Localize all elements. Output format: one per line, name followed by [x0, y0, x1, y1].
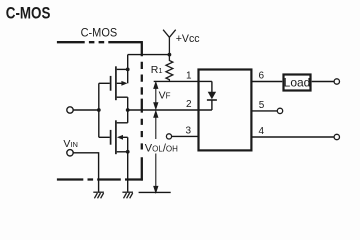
wire: Vcc rail	[128, 54, 170, 56]
resistor R1	[166, 55, 173, 82]
reference line for VOL/OH	[139, 191, 171, 193]
node: Q2 source junction	[126, 150, 130, 154]
LED D1	[211, 81, 213, 92]
terminal circle (pin 6 output)	[334, 79, 339, 84]
wire: output vertical (Q1 source to Q2 drain)	[127, 97, 129, 123]
svg-text:Load: Load	[284, 76, 311, 90]
wire: upper gate lead	[99, 82, 110, 84]
wire: load to terminal	[312, 81, 334, 83]
wire: pin 6 to load	[251, 81, 282, 83]
optocoupler U1 box	[199, 70, 252, 151]
ground 2	[122, 192, 133, 198]
VIN terminal circle	[67, 150, 73, 156]
ground 1	[93, 192, 104, 198]
node: output junction	[126, 108, 130, 112]
VOL/OH arrow (lower part)	[154, 154, 158, 193]
VOL/OH arrow (upper part)	[154, 111, 158, 139]
pin 3 terminal circle	[166, 134, 171, 139]
wire: pin 4	[251, 136, 334, 138]
node: Vcc junction	[168, 53, 172, 57]
C-MOS dashed box right edge	[141, 41, 143, 181]
svg-text:+Vcc: +Vcc	[176, 33, 201, 45]
svg-text:VOL/OH: VOL/OH	[145, 143, 178, 155]
Q2 bulk arrowhead	[117, 135, 123, 140]
svg-text:R1: R1	[151, 64, 163, 76]
C-MOS dashed box top edge	[57, 41, 143, 43]
svg-text:2: 2	[186, 99, 192, 110]
svg-text:VF: VF	[159, 89, 171, 101]
transistor Q2 (NMOS)	[111, 120, 116, 154]
wire: input to gate bus	[73, 109, 99, 111]
VF arrow	[154, 83, 158, 109]
svg-text:1: 1	[186, 70, 192, 81]
C-MOS dashed box bottom edge	[57, 178, 143, 180]
svg-text:C-MOS: C-MOS	[81, 27, 118, 39]
svg-text:C-MOS: C-MOS	[6, 5, 51, 23]
svg-text:4: 4	[259, 126, 265, 137]
svg-text:3: 3	[185, 125, 191, 136]
terminal circle (pin 5)	[277, 108, 282, 113]
svg-text:VIN: VIN	[63, 138, 78, 150]
input terminal circle (gate input)	[67, 107, 73, 113]
svg-text:6: 6	[259, 71, 265, 82]
transistor Q1 (PMOS)	[111, 66, 116, 100]
wire: pin 3	[172, 135, 199, 137]
svg-text:5: 5	[259, 100, 265, 111]
+Vcc supply symbol	[163, 30, 176, 55]
wire: output / cathode line (pin 2)	[128, 109, 212, 111]
wire: anode line (pin 1)	[154, 80, 212, 82]
wire: Q2 source to ground 2	[127, 152, 129, 192]
Load box	[284, 75, 311, 91]
wire: VIN to ground drop	[73, 153, 98, 192]
wire: lower gate lead	[99, 136, 110, 138]
node: Q1 drain junction	[126, 68, 130, 72]
node: gate bus junction	[97, 108, 101, 112]
wire: pin 5	[251, 110, 277, 112]
terminal circle (pin 4)	[334, 134, 339, 139]
wire: Vcc vertical from rail to Q1 drain	[127, 55, 129, 70]
Q1 bulk arrowhead	[121, 81, 127, 86]
wire: gate bus	[98, 83, 100, 137]
